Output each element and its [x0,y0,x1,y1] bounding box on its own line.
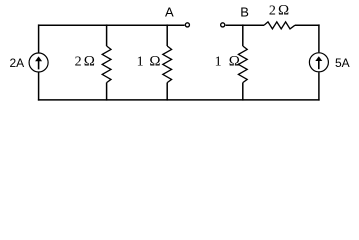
svg-text:2: 2 [75,55,82,70]
svg-text:1: 1 [215,55,222,70]
label 1 ohm right [215,54,240,70]
wire top-left rail [39,24,185,26]
current source I1 arrow [35,56,42,69]
resistor R3 1ohm zigzag [238,46,247,83]
resistor R3 1ohm branch top stub [242,24,244,46]
resistor R1 2ohm zigzag [102,46,111,83]
svg-text:Ω: Ω [84,54,95,70]
resistor R4 2ohm horizontal zigzag [264,22,295,29]
resistor R2 1ohm branch top stub [166,24,168,46]
resistor R1 2ohm branch bottom stub [106,83,108,101]
terminal A open circle [185,23,189,27]
resistor R3 1ohm branch bottom stub [242,83,244,101]
label 1 ohm left [137,54,161,70]
resistor R1 2ohm branch top stub [106,24,108,46]
svg-text:1: 1 [137,55,144,70]
wire right branch bottom stub [318,72,320,100]
wire left branch bottom stub [38,72,40,100]
wire bottom rail [38,99,320,101]
svg-text:Ω: Ω [149,54,160,70]
svg-text:2A: 2A [10,56,25,70]
label 2 ohm left [75,54,95,70]
resistor R2 1ohm branch bottom stub [166,83,168,101]
wire from terminal B to right [226,24,264,26]
svg-text:Ω: Ω [229,54,240,70]
svg-text:5A: 5A [335,56,350,70]
svg-text:Ω: Ω [278,3,289,19]
current source I2 arrow [315,56,322,69]
current source I2 circle [309,53,328,72]
label 2 ohm top [269,3,289,19]
wire right branch top stub [318,24,320,52]
resistor R2 1ohm zigzag [163,46,172,83]
wire left branch top stub [38,24,40,52]
svg-text:2: 2 [269,4,276,19]
svg-text:A: A [165,4,174,19]
wire top-right rail [295,24,320,26]
svg-text:B: B [240,4,249,19]
terminal B open circle [221,23,225,27]
current source I1 circle [29,53,48,72]
